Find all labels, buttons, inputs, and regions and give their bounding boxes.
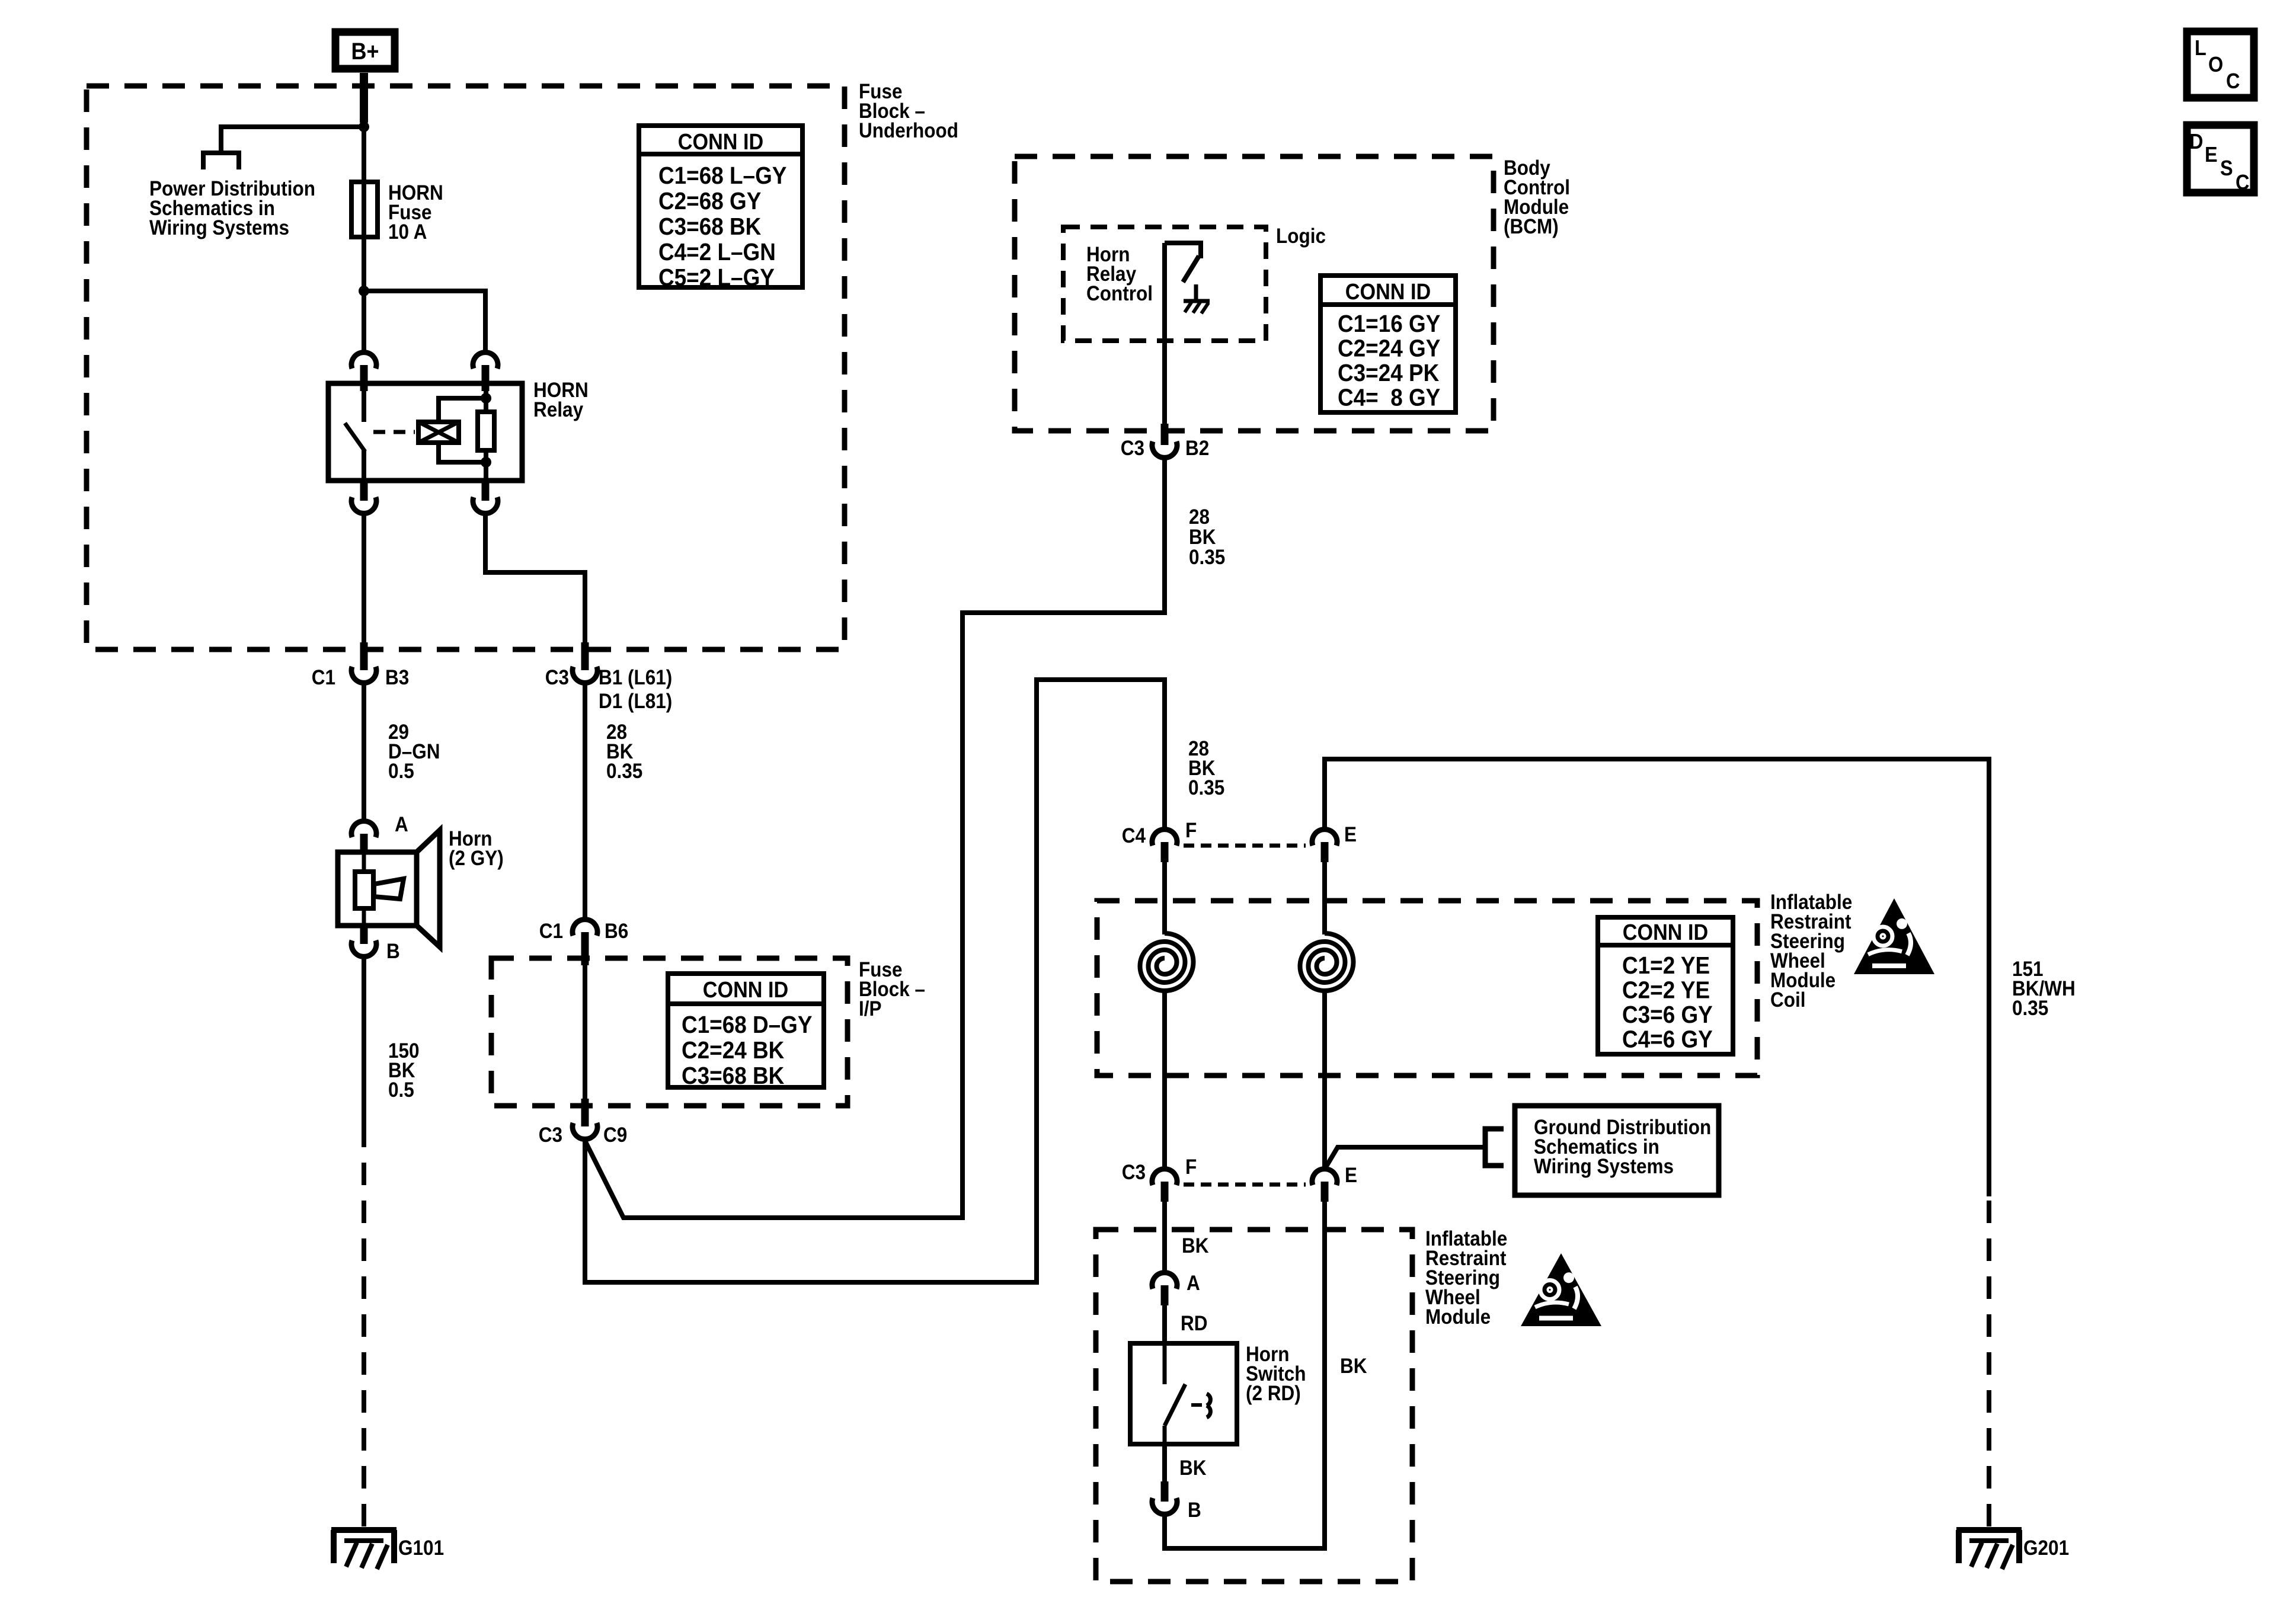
- label wire 29 D-GN 0.5: [388, 721, 440, 783]
- Inflatable Restraint Steering Wheel Module dashed box: [1096, 1230, 1412, 1582]
- wire C3 F to horn switch A: [1162, 1202, 1167, 1271]
- wire 29 D-GN to horn: [362, 684, 366, 820]
- svg-text:C3: C3: [539, 1124, 562, 1147]
- DESC legend box: [2187, 125, 2254, 194]
- svg-text:A: A: [395, 813, 408, 836]
- wire E top to 151 BK/WH: [1325, 759, 1989, 1196]
- svg-text:C9: C9: [603, 1124, 627, 1147]
- wire C9 to steering coil F (via bridge): [585, 680, 1165, 1282]
- svg-text:BK: BK: [1179, 1457, 1207, 1480]
- label Body Control Module (BCM): [1504, 156, 1570, 238]
- svg-text:D: D: [2189, 129, 2203, 153]
- wire coil left to C3 F: [1162, 991, 1167, 1167]
- steering wheel coil left (clockspring): [1140, 862, 1193, 991]
- svg-text:C3=6 GY: C3=6 GY: [1622, 1001, 1713, 1028]
- warning triangle air bag (module): [1521, 1253, 1601, 1326]
- horn driver element: [355, 852, 373, 928]
- label Fuse Block - Underhood: [859, 80, 958, 142]
- svg-text:0.5: 0.5: [388, 760, 414, 783]
- connector relay pin 3 (bottom left): [351, 481, 376, 513]
- svg-text:C4=6 GY: C4=6 GY: [1622, 1026, 1713, 1053]
- svg-text:Wiring Systems: Wiring Systems: [149, 216, 289, 239]
- svg-text:C1: C1: [539, 920, 563, 943]
- svg-text:C2=24 GY: C2=24 GY: [1338, 335, 1440, 362]
- relay box HORN Relay: [328, 383, 522, 481]
- wire BCM horn relay control output: [1162, 243, 1167, 431]
- svg-text:Relay: Relay: [533, 398, 584, 421]
- svg-text:B+: B+: [351, 39, 379, 65]
- connector C3 B1 D1: [545, 642, 673, 713]
- svg-text:Coil: Coil: [1770, 988, 1806, 1012]
- svg-text:C3: C3: [1121, 437, 1144, 460]
- label wire 150 BK 0.5: [388, 1039, 420, 1102]
- svg-text:B: B: [1188, 1499, 1201, 1522]
- label Horn (2 GY): [449, 827, 504, 870]
- svg-text:C1: C1: [312, 666, 335, 689]
- wire inside fuse block IP: [583, 958, 587, 1106]
- label wire 28 BK 0.35 (coil feed): [1188, 737, 1224, 799]
- svg-text:C2=68 GY: C2=68 GY: [658, 187, 761, 215]
- svg-text:C3: C3: [545, 666, 569, 689]
- horn switch contact: [1191, 1394, 1210, 1417]
- junction node below fuse: [359, 286, 369, 296]
- horn switch wire bottom: [1163, 1426, 1167, 1444]
- Logic dashed box: [1063, 227, 1266, 341]
- svg-text:C2=2 YE: C2=2 YE: [1622, 977, 1710, 1004]
- Body Control Module dashed box: [1015, 156, 1494, 431]
- svg-text:O: O: [2208, 52, 2223, 76]
- label Power Distribution Schematics in Wiring Systems: [149, 177, 315, 239]
- svg-text:C3=24 PK: C3=24 PK: [1338, 359, 1440, 386]
- wire 150 BK horn ground (solid): [362, 958, 366, 1138]
- svg-text:F: F: [1185, 1156, 1197, 1179]
- connector horn switch pin A: [1152, 1272, 1200, 1305]
- Fuse Block - Underhood dashed box: [87, 86, 845, 649]
- connector relay pin 1 (top left): [351, 353, 376, 391]
- relay coil right wire: [484, 383, 488, 481]
- wire E to ground distribution: [1326, 1147, 1485, 1166]
- battery positive voltage symbol B+: [335, 32, 395, 69]
- CONN ID table (Fuse Block - I/P): [668, 974, 824, 1089]
- wire horn switch to B: [1162, 1444, 1167, 1481]
- svg-text:B1 (L61): B1 (L61): [599, 666, 672, 689]
- label Fuse Block - I/P: [859, 958, 925, 1020]
- svg-text:CONN ID: CONN ID: [678, 130, 763, 155]
- connector horn switch pin B: [1152, 1481, 1201, 1522]
- connector horn pin A: [351, 813, 408, 854]
- warning triangle air bag (coil): [1854, 898, 1934, 974]
- label wire 151 BK/WH 0.35: [2012, 958, 2076, 1020]
- horn body box: [338, 852, 417, 926]
- horn driver beam: [374, 879, 404, 899]
- relay junction node bottom: [481, 457, 491, 468]
- connector E (lower): [1312, 1164, 1357, 1202]
- label HORN Relay: [533, 379, 589, 421]
- horn switch box: [1130, 1343, 1237, 1444]
- BCM driver internal ground: [1184, 284, 1210, 313]
- connector C1 B6: [539, 920, 629, 965]
- dashed connector link F-E (top): [1184, 844, 1306, 848]
- Fuse Block - I/P dashed box: [491, 958, 848, 1106]
- wire 150 BK horn ground (hidden run): [362, 1138, 366, 1526]
- svg-text:(2 RD): (2 RD): [1246, 1382, 1301, 1405]
- svg-text:B3: B3: [385, 666, 409, 689]
- svg-text:E: E: [1344, 823, 1357, 846]
- svg-text:I/P: I/P: [859, 997, 882, 1020]
- wire relay output to C1 B3: [362, 515, 366, 649]
- label Ground Distribution Schematics in Wiring Systems: [1534, 1116, 1711, 1178]
- relay coil parallel links: [439, 398, 486, 462]
- relay switch contact wire (top): [362, 383, 366, 422]
- connector C3 F (lower): [1122, 1156, 1197, 1202]
- svg-text:Logic: Logic: [1276, 225, 1326, 248]
- label Horn Relay Control: [1086, 243, 1153, 305]
- svg-text:C1=68 L–GY: C1=68 L–GY: [658, 162, 786, 189]
- connector C3 C9: [539, 1099, 628, 1147]
- Inflatable Restraint Steering Wheel Module Coil dashed box: [1097, 901, 1757, 1076]
- svg-text:C3=68 BK: C3=68 BK: [682, 1062, 785, 1089]
- wire 151 BK/WH hidden run: [1987, 1196, 1991, 1526]
- LOC legend box: [2187, 31, 2254, 98]
- svg-text:F: F: [1185, 819, 1197, 842]
- svg-text:C: C: [2236, 170, 2249, 194]
- svg-text:C3: C3: [1122, 1161, 1146, 1184]
- label Inflatable Restraint Steering Wheel Module Coil: [1770, 891, 1852, 1012]
- wire B to E return: [1165, 1202, 1325, 1548]
- svg-text:Underhood: Underhood: [859, 119, 958, 142]
- connector C1 B3: [312, 642, 410, 689]
- CONN ID table (Fuse Block - Underhood): [639, 126, 802, 291]
- label wire BK (below switch): [1179, 1457, 1207, 1480]
- svg-text:E: E: [2205, 142, 2218, 167]
- wire A to horn switch: [1162, 1305, 1167, 1343]
- BCM driver switch: [1165, 243, 1201, 282]
- relay switch blade: [345, 423, 365, 452]
- label wire 28 BK 0.35 (left): [606, 721, 642, 783]
- connector C3 B2: [1121, 424, 1210, 460]
- connector C4 F: [1122, 819, 1197, 862]
- svg-text:Control: Control: [1086, 282, 1153, 305]
- svg-text:BK: BK: [1182, 1234, 1209, 1257]
- connector relay pin 4 (bottom right): [473, 481, 498, 513]
- label HORN Fuse 10 A: [388, 181, 443, 244]
- svg-text:0.5: 0.5: [388, 1078, 414, 1102]
- label Inflatable Restraint Steering Wheel Module: [1425, 1227, 1507, 1329]
- svg-text:L: L: [2195, 36, 2207, 60]
- label wire RD: [1181, 1312, 1208, 1335]
- wire 28 BK fuse block IP feed: [583, 684, 587, 918]
- svg-text:RD: RD: [1181, 1312, 1208, 1335]
- wire coil right to E: [1322, 991, 1327, 1167]
- CONN ID table (coil): [1598, 917, 1733, 1054]
- fuse HORN Fuse 10 A: [351, 182, 378, 237]
- svg-text:0.35: 0.35: [1189, 546, 1225, 569]
- svg-text:C4=2 L–GN: C4=2 L–GN: [658, 238, 776, 265]
- wire branch to power distribution reference: [221, 127, 364, 153]
- svg-text:C3=68 BK: C3=68 BK: [658, 213, 762, 240]
- svg-text:B6: B6: [605, 920, 628, 943]
- CONN ID table (BCM): [1320, 276, 1456, 412]
- svg-text:Wiring Systems: Wiring Systems: [1534, 1155, 1674, 1178]
- svg-text:0.35: 0.35: [606, 760, 642, 783]
- relay coil box with X: [418, 422, 459, 443]
- svg-text:C: C: [2226, 69, 2240, 93]
- ground distribution reference box: [1515, 1106, 1719, 1195]
- svg-text:Module: Module: [1425, 1305, 1491, 1329]
- wire C9 to BCM B2 (via left loop): [585, 459, 1165, 1218]
- svg-text:C4= 8 GY: C4= 8 GY: [1338, 384, 1440, 411]
- svg-text:(2 GY): (2 GY): [449, 847, 504, 870]
- horn switch blade: [1165, 1384, 1185, 1426]
- svg-text:B2: B2: [1185, 437, 1209, 460]
- svg-text:CONN ID: CONN ID: [1345, 280, 1431, 305]
- svg-text:G201: G201: [2023, 1537, 2069, 1560]
- svg-text:10 A: 10 A: [388, 220, 427, 244]
- wire B+ to fuse and relay (left feed): [360, 73, 368, 351]
- svg-text:C4: C4: [1122, 824, 1146, 847]
- wire relay coil return to C3 B1: [485, 515, 585, 649]
- label Logic: [1276, 225, 1326, 248]
- svg-text:B: B: [386, 940, 400, 963]
- steering wheel coil right (clockspring): [1300, 862, 1354, 991]
- horn switch wire top: [1163, 1343, 1167, 1384]
- power distribution off-page bracket: [203, 153, 239, 169]
- svg-text:CONN ID: CONN ID: [703, 978, 788, 1003]
- relay switch contact wire (bottom): [362, 450, 366, 481]
- label wire BK (return): [1340, 1355, 1367, 1378]
- svg-text:C5=2 L–GY: C5=2 L–GY: [658, 264, 775, 291]
- svg-text:CONN ID: CONN ID: [1623, 920, 1708, 945]
- svg-text:E: E: [1345, 1164, 1357, 1187]
- junction node below B+: [359, 121, 369, 132]
- label Horn Switch (2 RD): [1246, 1343, 1306, 1405]
- relay resistor: [478, 412, 494, 450]
- svg-text:C1=68 D–GY: C1=68 D–GY: [682, 1011, 813, 1038]
- connector horn pin B: [351, 926, 400, 963]
- svg-text:C1=16 GY: C1=16 GY: [1338, 310, 1440, 337]
- svg-text:(BCM): (BCM): [1504, 215, 1559, 238]
- relay junction node top: [481, 393, 491, 404]
- ground distribution flag bracket: [1485, 1129, 1504, 1166]
- horn trumpet flare: [417, 830, 440, 947]
- svg-text:C2=24 BK: C2=24 BK: [682, 1036, 785, 1064]
- ground G101: [331, 1530, 444, 1569]
- ground G201: [1956, 1530, 2069, 1569]
- connector E (top): [1312, 823, 1357, 862]
- svg-text:BK: BK: [1340, 1355, 1367, 1378]
- svg-text:G101: G101: [398, 1537, 444, 1560]
- wire branch fuse output to relay coil input: [364, 291, 485, 351]
- dashed connector link F-E (bottom): [1184, 1183, 1306, 1187]
- label wire 28 BK 0.35 (BCM): [1189, 505, 1225, 569]
- svg-text:A: A: [1187, 1272, 1200, 1295]
- svg-text:0.35: 0.35: [2012, 997, 2048, 1020]
- svg-text:0.35: 0.35: [1188, 776, 1224, 799]
- svg-text:C1=2 YE: C1=2 YE: [1622, 952, 1710, 979]
- svg-text:S: S: [2220, 156, 2233, 180]
- label wire BK (module top): [1182, 1234, 1209, 1257]
- relay actuator dashed link: [373, 430, 415, 434]
- connector relay pin 2 (top right): [473, 353, 498, 391]
- svg-text:D1 (L81): D1 (L81): [599, 690, 672, 713]
